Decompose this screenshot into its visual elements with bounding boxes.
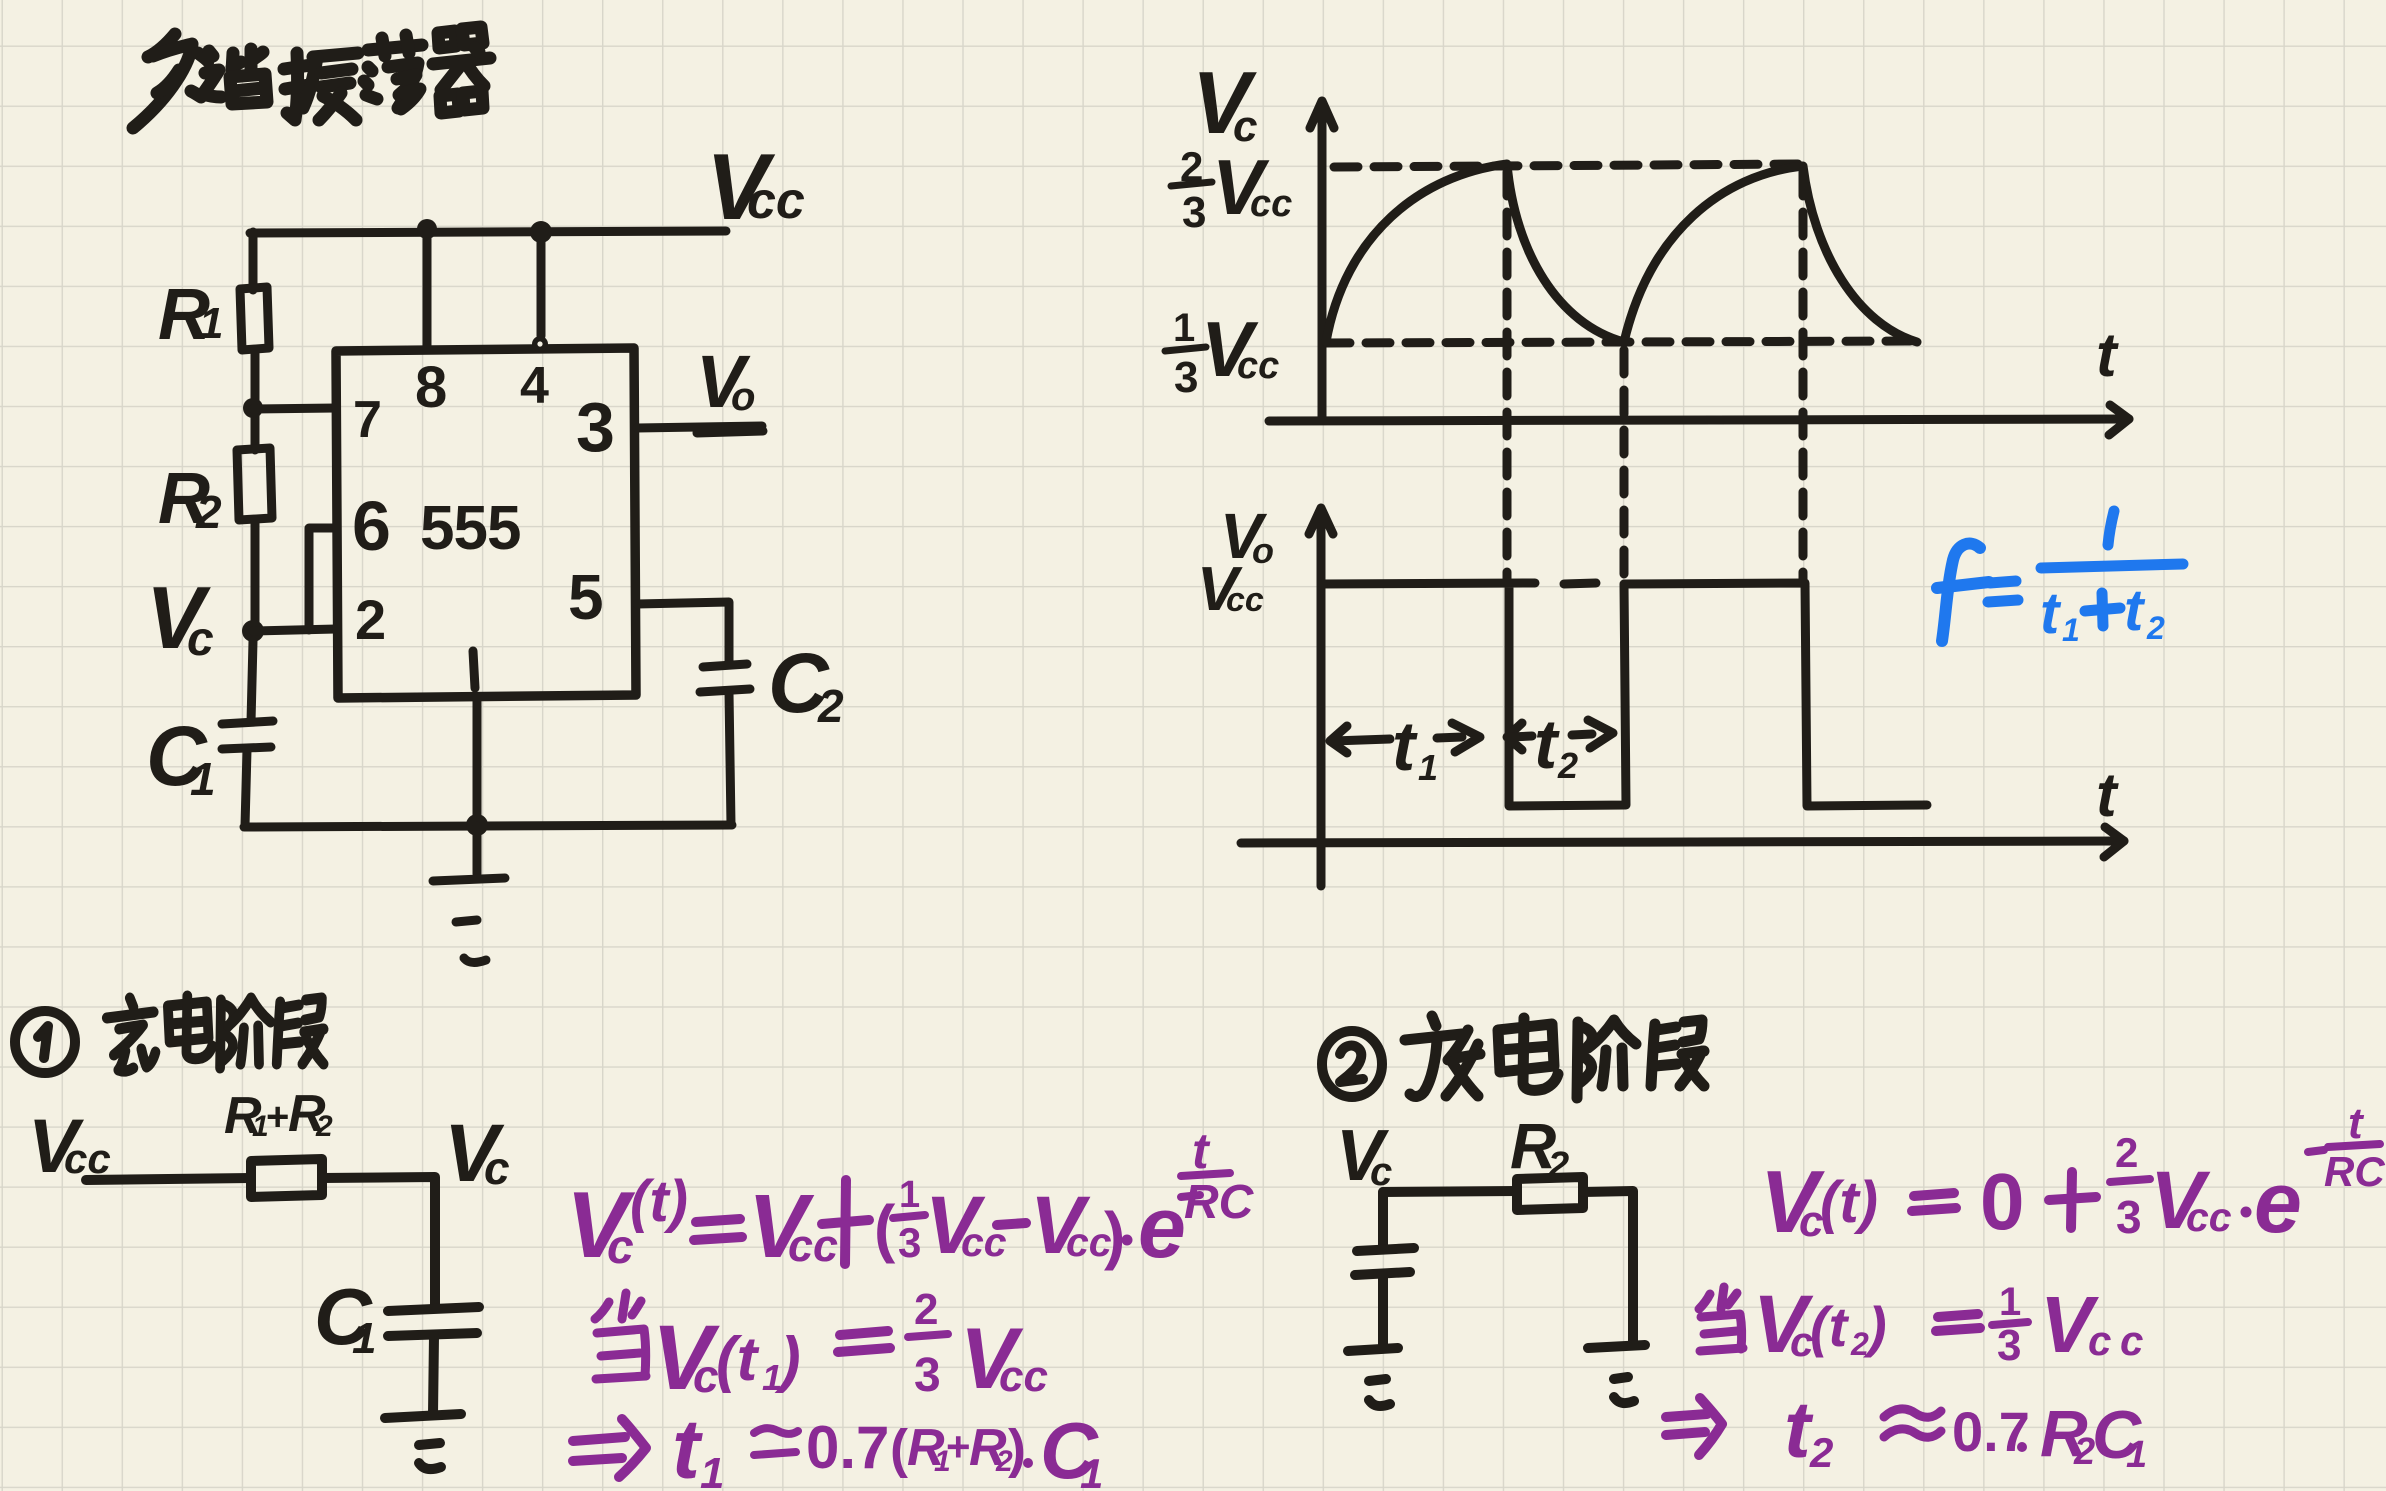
svg-text:7: 7 xyxy=(353,391,382,449)
svg-text:1: 1 xyxy=(2126,1434,2147,1476)
svg-text:555: 555 xyxy=(420,494,520,563)
svg-text:3: 3 xyxy=(898,1219,921,1266)
svg-text:1: 1 xyxy=(1999,1280,2021,1324)
svg-text:0.7: 0.7 xyxy=(1952,1400,2030,1463)
IC U1 555 box xyxy=(336,348,636,698)
svg-text:3: 3 xyxy=(1997,1321,2021,1370)
svg-text:1: 1 xyxy=(190,753,216,805)
wire pin 8 vertical xyxy=(423,232,432,349)
label Vo (graph) xyxy=(1220,500,1274,572)
svg-text:cc: cc xyxy=(999,1352,1048,1401)
label 2/3 Vcc xyxy=(1180,143,1292,237)
Vc graph x-axis xyxy=(1269,419,2129,421)
svg-text:0: 0 xyxy=(1980,1157,2025,1246)
svg-text:1: 1 xyxy=(352,1314,376,1363)
wire pin 5 xyxy=(637,602,729,665)
svg-text:1: 1 xyxy=(1173,306,1195,350)
svg-text:t: t xyxy=(1392,707,1418,785)
svg-text:2: 2 xyxy=(355,588,386,651)
formula Vc(t)=Vcc+(1/3 Vcc - Vcc)e^-t/RC (purple) xyxy=(566,1123,1255,1277)
svg-text:o: o xyxy=(731,375,755,419)
dashed line 2/3 Vcc level xyxy=(1334,164,1805,167)
node junction dot pin4/rail xyxy=(530,221,552,243)
label C2 xyxy=(768,636,844,732)
label Vcc (graph level) xyxy=(1197,555,1264,624)
wire capacitor to ground xyxy=(1378,1276,1388,1347)
svg-text:2: 2 xyxy=(2115,1129,2138,1176)
label t2 xyxy=(1534,705,1578,786)
label t1 xyxy=(1392,707,1438,788)
wire C1 to ground bus xyxy=(245,750,247,826)
formula Vc(t) = 0 + 2/3 Vcc e^-t/RC (purple) xyxy=(1760,1099,2385,1251)
svg-text:2: 2 xyxy=(1809,1429,1833,1476)
svg-text:6: 6 xyxy=(352,487,391,565)
svg-text:8: 8 xyxy=(415,355,447,420)
svg-text:c: c xyxy=(2088,1317,2111,1364)
ground (main) xyxy=(473,826,482,874)
Vo graph y-axis xyxy=(1317,510,1326,886)
svg-text:(t: (t xyxy=(716,1325,760,1394)
dashed vertical t2 boundary xyxy=(1620,350,1629,583)
wire pin 2 xyxy=(253,629,336,631)
svg-text:5: 5 xyxy=(568,561,604,633)
Vc waveform curve xyxy=(1326,164,1917,342)
ground (charge circuit) xyxy=(385,1414,461,1418)
svg-text:t: t xyxy=(2124,578,2146,643)
wire pin 3 output xyxy=(637,426,763,433)
capacitor C (discharge circuit) xyxy=(1357,1248,1414,1251)
label Vc (discharge circuit) xyxy=(1336,1116,1392,1196)
wire resistor to right leg xyxy=(1583,1191,1633,1344)
svg-text:cc: cc xyxy=(1226,581,1264,619)
svg-text:(t: (t xyxy=(1810,1295,1850,1358)
resistor R2 xyxy=(237,448,272,520)
pin 1 tick xyxy=(473,651,475,688)
label Vcc (power) xyxy=(706,134,805,239)
svg-text:2: 2 xyxy=(914,1285,938,1334)
wire Vc to resistor xyxy=(1383,1191,1517,1192)
svg-text:c: c xyxy=(693,1350,719,1402)
Vo square wave xyxy=(1322,583,1927,806)
label C1 xyxy=(146,709,216,805)
svg-text:(t): (t) xyxy=(1820,1170,1878,1235)
svg-text:(: ( xyxy=(890,1419,908,1479)
node junction dot pin7 xyxy=(243,398,263,418)
label Vc (graph) xyxy=(1192,53,1257,152)
label R1+R2 xyxy=(224,1085,333,1145)
ground (discharge left) xyxy=(1348,1348,1398,1351)
svg-text:RC: RC xyxy=(1184,1176,1255,1229)
formula t2 = 0.7 R2 C1 (purple) xyxy=(1666,1414,1707,1435)
svg-text:c: c xyxy=(187,613,214,666)
svg-text:2: 2 xyxy=(1557,745,1578,786)
wire R1 to R2 xyxy=(251,350,260,450)
wire Vc node to C1 xyxy=(251,641,253,722)
resistor R1 xyxy=(240,287,269,350)
wire ground bus xyxy=(244,825,732,827)
svg-text:t: t xyxy=(2040,581,2062,646)
resistor R1+R2 xyxy=(251,1159,322,1197)
capacitor C1 xyxy=(222,721,273,724)
heading 充电阶段 xyxy=(107,996,324,1071)
label Vo xyxy=(696,340,755,423)
svg-text:0.7: 0.7 xyxy=(806,1414,889,1481)
t2 span arrow xyxy=(1507,723,1522,750)
label R1 xyxy=(158,275,223,355)
wire C1 to ground xyxy=(433,1336,434,1414)
label Vc (charge circuit) xyxy=(444,1108,510,1199)
svg-text:1: 1 xyxy=(700,1449,724,1491)
wire rail to R1 xyxy=(249,232,258,290)
svg-text:2: 2 xyxy=(2146,610,2165,646)
svg-text:2: 2 xyxy=(817,680,844,732)
Vc graph y-axis xyxy=(1318,103,1327,420)
svg-text:c: c xyxy=(484,1142,510,1194)
wire C2 to ground bus xyxy=(729,693,731,825)
wire pin 6 stub xyxy=(309,528,336,630)
dashed line 1/3 Vcc level xyxy=(1326,341,1917,343)
svg-text:t: t xyxy=(672,1402,703,1491)
wire Vcc rail xyxy=(250,231,726,233)
svg-text:3: 3 xyxy=(2116,1191,2142,1243)
wire pin 1 to bus xyxy=(473,697,482,825)
label Vcc (charge circuit) xyxy=(28,1104,111,1189)
svg-text:o: o xyxy=(1252,530,1274,571)
label C1 (charge circuit) xyxy=(314,1272,376,1363)
svg-text:cc: cc xyxy=(2186,1194,2232,1240)
svg-text:cc: cc xyxy=(1250,183,1292,225)
svg-text:2: 2 xyxy=(1850,1326,1869,1362)
svg-text:t: t xyxy=(2096,761,2119,830)
wire pin 4 vertical xyxy=(537,232,546,336)
svg-text:+: + xyxy=(266,1095,289,1139)
capacitor C1 (charge circuit) xyxy=(388,1307,479,1311)
svg-text:): ) xyxy=(1104,1199,1125,1271)
wire pin 7 xyxy=(253,408,336,409)
svg-text:): ) xyxy=(1008,1419,1026,1479)
dashed vertical t1 boundary xyxy=(1503,172,1512,583)
node Vc junction dot xyxy=(242,620,264,642)
resistor R2 (discharge circuit) xyxy=(1517,1177,1583,1210)
svg-text:1: 1 xyxy=(1080,1450,1103,1491)
formula f = 1/(t1+t2) (blue) xyxy=(1942,544,1980,641)
svg-text:2: 2 xyxy=(315,1110,333,1143)
svg-text:c: c xyxy=(2120,1317,2143,1364)
title 多谐振荡器 xyxy=(133,27,490,128)
svg-text:t: t xyxy=(1534,705,1560,783)
svg-text:2: 2 xyxy=(195,486,222,538)
svg-text:3: 3 xyxy=(1182,188,1206,237)
svg-text:1: 1 xyxy=(199,299,223,348)
formula when Vc(t2) = 1/3 Vcc (purple) xyxy=(1699,1287,1743,1351)
svg-text:cc: cc xyxy=(1237,345,1279,387)
capacitor C2 xyxy=(703,664,747,667)
svg-text:t: t xyxy=(2096,321,2119,390)
label Vc (node) xyxy=(146,568,214,667)
section mark (2) circled xyxy=(1322,1031,1382,1097)
svg-text:(: ( xyxy=(874,1192,896,1264)
Vo graph x-axis xyxy=(1241,841,2124,843)
dash at Vcc level between pulses xyxy=(1564,583,1596,584)
label 1/3 Vcc xyxy=(1173,305,1279,402)
heading 放电阶段 xyxy=(1405,1016,1704,1098)
node bottom junction dot xyxy=(466,814,488,836)
wire Vcc to resistor xyxy=(86,1178,251,1180)
svg-text:4: 4 xyxy=(520,357,549,415)
svg-text:+: + xyxy=(946,1423,971,1470)
ground (discharge right) xyxy=(1588,1345,1645,1348)
formula t1 = 0.7 (R1+R2) C1 (purple) xyxy=(573,1437,625,1461)
wire Vc down to capacitor xyxy=(1378,1192,1388,1249)
svg-text:3: 3 xyxy=(576,388,615,466)
svg-text:cc: cc xyxy=(747,172,805,230)
label R2 xyxy=(158,459,222,539)
svg-text:t: t xyxy=(2348,1099,2365,1148)
formula when Vc(t1) = 2/3 Vcc (purple) xyxy=(595,1293,646,1379)
wire R2 to Vc node xyxy=(251,520,260,631)
svg-text:1: 1 xyxy=(2062,612,2080,648)
wire resistor to Vc corner xyxy=(322,1177,435,1308)
svg-text:1: 1 xyxy=(1418,747,1438,788)
section mark (1) circled xyxy=(15,1011,75,1073)
svg-text:3: 3 xyxy=(1174,353,1198,402)
label R2 (discharge circuit) xyxy=(1510,1110,1569,1187)
t1 span arrow xyxy=(1330,726,1347,753)
svg-text:3: 3 xyxy=(914,1349,941,1402)
dashed vertical period boundary xyxy=(1799,172,1808,583)
svg-text:1: 1 xyxy=(899,1174,920,1216)
svg-text:RC: RC xyxy=(2324,1148,2385,1195)
svg-text:e: e xyxy=(2254,1155,2302,1251)
svg-text:(t): (t) xyxy=(630,1169,688,1234)
pin 4 connection bubble xyxy=(532,336,548,352)
node junction dot pin8/rail xyxy=(417,219,437,239)
